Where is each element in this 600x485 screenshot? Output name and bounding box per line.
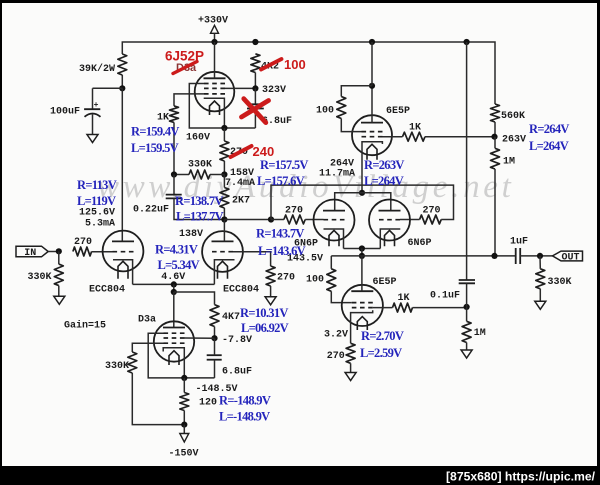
label ECC804 left bbox=[89, 284, 125, 295]
power -150V arrow bbox=[180, 425, 189, 442]
svg-text:330K: 330K bbox=[105, 361, 129, 372]
resistor 270 grounded grid bbox=[266, 266, 275, 286]
annotation R=264V bbox=[529, 122, 569, 136]
label 100 lower bbox=[306, 274, 324, 285]
resistor 240 cathode bbox=[220, 141, 229, 161]
svg-text:270: 270 bbox=[327, 351, 345, 362]
label 270 lower bbox=[327, 351, 345, 362]
wire 270 to grid bbox=[92, 251, 113, 253]
label 263V bbox=[502, 134, 526, 145]
junction bus/0.1uF line bbox=[464, 39, 470, 45]
svg-text:7.4mA: 7.4mA bbox=[225, 178, 255, 189]
label 264V bbox=[330, 158, 354, 169]
annotation R=263V bbox=[364, 158, 404, 172]
wire to 120 bbox=[183, 378, 185, 393]
label 125.6V bbox=[79, 207, 115, 218]
annotation L=157.6V bbox=[257, 174, 305, 188]
6J52P cathode bbox=[204, 98, 225, 128]
svg-text:L=2.59V: L=2.59V bbox=[360, 346, 402, 360]
deletion cross X (red) bbox=[242, 99, 269, 123]
resistor 270 lower cathode bbox=[346, 343, 355, 363]
junction IN node bbox=[56, 248, 62, 254]
resistor 39K/2W bbox=[118, 54, 127, 75]
junction bus/4K2 bbox=[252, 39, 258, 45]
label 1M lower bbox=[474, 328, 486, 339]
resistor 120 bbox=[180, 393, 189, 411]
label -7.8V bbox=[222, 335, 252, 346]
label 120 bbox=[199, 398, 217, 409]
svg-text:100: 100 bbox=[306, 274, 324, 285]
wire 270 to right grid bbox=[400, 219, 420, 221]
6E5P upper plate lead bbox=[371, 86, 373, 123]
svg-text:2K7: 2K7 bbox=[232, 196, 250, 207]
resistor 270 6N6P left grid bbox=[284, 215, 305, 224]
wire to 0.22uF bbox=[173, 175, 175, 195]
label 11.7mA bbox=[319, 168, 355, 179]
resistor 1K upper grid bbox=[403, 132, 426, 141]
ground under grounded grid 270 bbox=[265, 297, 276, 305]
resistor 2K7 bbox=[220, 188, 229, 209]
resistor 1M lower bbox=[462, 321, 471, 342]
wire cathode bus bbox=[133, 283, 215, 285]
svg-text:270: 270 bbox=[285, 205, 303, 216]
wire 1M ends bbox=[466, 307, 468, 350]
tube ECC804 left V1a bbox=[103, 231, 144, 279]
capacitor 6.8uF (deleted) bbox=[247, 88, 264, 128]
label 270 (right 6N6P grid) bbox=[423, 206, 441, 217]
wire to output line bbox=[361, 249, 363, 256]
label 6E5P upper bbox=[386, 106, 410, 117]
label 3.2V bbox=[324, 330, 348, 341]
ground under 1M lower bbox=[461, 350, 472, 358]
wire 1uF to OUT bbox=[520, 255, 552, 257]
svg-text:Gain=15: Gain=15 bbox=[64, 320, 106, 332]
label 323V bbox=[262, 85, 286, 96]
junction bus/+330V bbox=[211, 39, 217, 45]
wire B+ to ECC804 left plate bbox=[121, 88, 123, 241]
svg-text:323V: 323V bbox=[262, 85, 286, 96]
svg-text:R=10.31V: R=10.31V bbox=[240, 306, 288, 320]
svg-text:270: 270 bbox=[74, 237, 92, 248]
label 330K bbox=[188, 159, 212, 170]
label ECC804 right bbox=[223, 284, 259, 295]
svg-text:R=4.31V: R=4.31V bbox=[155, 243, 198, 257]
label 0.22uF bbox=[133, 204, 169, 215]
svg-text:L=157.6V: L=157.6V bbox=[257, 174, 305, 188]
svg-text:D3a: D3a bbox=[138, 315, 156, 326]
6E5P upper grid line to 1K bbox=[383, 136, 403, 138]
annotation R=138.7V bbox=[175, 194, 223, 208]
junction output/1M bbox=[491, 253, 497, 259]
label D3a struck out (red) bbox=[173, 62, 197, 75]
tube 6E5P upper V3 bbox=[352, 115, 392, 160]
annotation L=2.59V bbox=[360, 346, 402, 360]
svg-text:R=113V: R=113V bbox=[77, 178, 117, 192]
wire 240 to 330K junction bbox=[223, 161, 225, 175]
svg-text:R=263V: R=263V bbox=[364, 158, 404, 172]
label 1K lower bbox=[398, 293, 410, 304]
svg-text:138V: 138V bbox=[179, 229, 203, 240]
resistor 4K7 bbox=[210, 305, 219, 327]
svg-text:100: 100 bbox=[284, 57, 306, 72]
annotation L=-148.9V bbox=[219, 409, 270, 423]
label 1uF bbox=[510, 237, 528, 248]
svg-text:11.7mA: 11.7mA bbox=[319, 168, 355, 179]
svg-text:4K7: 4K7 bbox=[222, 312, 240, 323]
label -148.5V bbox=[196, 384, 238, 395]
junction 6E5P cathode node bbox=[359, 190, 365, 196]
wire box bottom to 240 resistor bbox=[224, 127, 255, 129]
tube 6J52P V2 bbox=[195, 72, 235, 115]
resistor 1K grid stopper bbox=[170, 106, 179, 123]
svg-text:OUT: OUT bbox=[562, 252, 580, 263]
svg-text:R=159.4V: R=159.4V bbox=[131, 125, 179, 139]
capacitor 0.22uF bbox=[166, 195, 182, 199]
junction 39K/100uF bbox=[119, 85, 125, 91]
svg-text:R=143.7V: R=143.7V bbox=[256, 226, 304, 240]
wire link down bbox=[173, 284, 175, 292]
label 1K bbox=[157, 113, 169, 124]
annotation R=157.5V bbox=[260, 158, 308, 172]
label 6E5P lower bbox=[373, 277, 397, 288]
label 560K bbox=[501, 111, 525, 122]
svg-text:4.6V: 4.6V bbox=[161, 272, 185, 283]
junction bus/6E5P plate bbox=[369, 39, 375, 45]
6J52P plate lead bbox=[214, 42, 216, 78]
svg-text:270: 270 bbox=[277, 272, 295, 283]
annotation R=143.7V bbox=[256, 226, 304, 240]
junction 330K left bbox=[171, 171, 177, 177]
junction tail node bbox=[171, 289, 177, 295]
label D3a bbox=[138, 315, 156, 326]
svg-text:www.diyAudioVillage.net: www.diyAudioVillage.net bbox=[97, 169, 515, 205]
wire bus to 6N6P left grid bbox=[271, 219, 324, 221]
resistor 330K sink grid bbox=[128, 352, 137, 373]
label 6.8uF lower bbox=[222, 367, 252, 378]
svg-text:160V: 160V bbox=[186, 133, 210, 144]
svg-text:1K: 1K bbox=[409, 123, 421, 134]
D3a cathode bbox=[163, 348, 184, 378]
resistor 330K input bbox=[54, 264, 63, 286]
wire cathode node down bbox=[223, 128, 225, 141]
power +330V arrow bbox=[211, 25, 219, 42]
resistor 4K2 screen bbox=[251, 54, 260, 73]
annotation L=5.34V bbox=[158, 258, 200, 272]
capacitor 100uF bbox=[84, 101, 100, 134]
svg-text:ECC804: ECC804 bbox=[89, 284, 125, 295]
wire 1K to 330K junction bbox=[173, 122, 175, 174]
junction OUT/330K bbox=[537, 253, 543, 259]
annotation R=159.4V bbox=[131, 125, 179, 139]
caption bar bbox=[0, 466, 600, 485]
6J52P g2 line bbox=[225, 87, 255, 89]
label 160V bbox=[186, 133, 210, 144]
wire B+ to 0.1uF (long) bbox=[466, 42, 468, 280]
junction output node bbox=[359, 253, 365, 259]
ground under output 330K bbox=[535, 301, 546, 309]
label 6.8uF (top) bbox=[262, 116, 292, 127]
label 6N6P right bbox=[408, 238, 432, 249]
junction cathode/bottom line bbox=[181, 375, 187, 381]
label -150V bbox=[169, 449, 199, 460]
svg-text:560K: 560K bbox=[501, 111, 525, 122]
svg-text:263V: 263V bbox=[502, 134, 526, 145]
tube 6N6P right V5 bbox=[369, 200, 410, 247]
label 7.4mA bbox=[225, 178, 255, 189]
label Gain=15 bbox=[64, 320, 106, 332]
wire 330K to -150 rail bbox=[132, 373, 184, 425]
annotation L=143.6V bbox=[258, 244, 306, 258]
capacitor 6.8uF lower bbox=[207, 338, 222, 378]
label 270 (left 6N6P grid) bbox=[285, 205, 303, 216]
label 138V bbox=[179, 229, 203, 240]
wire 1M down to output node bbox=[494, 137, 496, 256]
svg-text:+: + bbox=[94, 101, 99, 110]
capacitor 1uF bbox=[516, 248, 521, 264]
svg-text:+330V: +330V bbox=[198, 15, 228, 26]
junction 1M node bbox=[464, 304, 470, 310]
wire 138V bus to 270 bbox=[224, 219, 271, 221]
svg-text:0.1uF: 0.1uF bbox=[430, 291, 460, 302]
ground under 270 lower bbox=[345, 373, 356, 381]
6E5P lower grid line bbox=[373, 307, 393, 309]
label 330K output bbox=[548, 277, 572, 288]
svg-text:120: 120 bbox=[199, 398, 217, 409]
svg-text:L=143.6V: L=143.6V bbox=[258, 244, 306, 258]
svg-text:L=-148.9V: L=-148.9V bbox=[219, 409, 270, 423]
ground under 100uF bbox=[87, 135, 98, 143]
wire 270 to ground bbox=[350, 363, 352, 372]
svg-text:L=264V: L=264V bbox=[529, 139, 569, 153]
label 158V bbox=[230, 168, 254, 179]
label 270 struck out bbox=[230, 146, 252, 158]
svg-text:-7.8V: -7.8V bbox=[222, 335, 252, 346]
svg-text:6.8uF: 6.8uF bbox=[222, 367, 252, 378]
label 330K input bbox=[28, 272, 52, 283]
junction 263V node bbox=[491, 134, 497, 140]
annotation L=119V bbox=[77, 194, 116, 208]
wire 100 to lower g2 bbox=[331, 291, 352, 302]
label 1K upper bbox=[409, 123, 421, 134]
D3a g3 box bbox=[148, 333, 214, 378]
svg-text:R=264V: R=264V bbox=[529, 122, 569, 136]
wire cathode node to 6N6P plates bbox=[335, 193, 391, 211]
svg-text:[875x680] https://upic.me/: [875x680] https://upic.me/ bbox=[446, 470, 596, 484]
label 100 bbox=[316, 105, 334, 116]
label 270 grounded grid bbox=[277, 272, 295, 283]
junction -150V node bbox=[181, 422, 187, 428]
annotation L=137.7V bbox=[176, 210, 224, 224]
svg-text:IN: IN bbox=[24, 248, 36, 259]
junction 330K right bbox=[221, 171, 227, 177]
wire output line bbox=[331, 255, 515, 257]
svg-text:330K: 330K bbox=[548, 277, 572, 288]
svg-text:5.3mA: 5.3mA bbox=[85, 218, 115, 229]
wire IN to junction bbox=[48, 251, 59, 253]
annotation R=2.70V bbox=[361, 329, 404, 343]
power +330V label bbox=[198, 15, 228, 26]
label 2K7 bbox=[232, 196, 250, 207]
watermark www.diyAudioVillage.net bbox=[97, 169, 515, 205]
junction plate/100ohm bbox=[369, 83, 375, 89]
6N6P right cathode bbox=[380, 229, 400, 249]
wire 270gg to ground bbox=[270, 286, 272, 297]
wire 560K to 263V bbox=[494, 122, 496, 137]
wire 2K7 ends bbox=[223, 175, 225, 220]
resistor 330K output bbox=[536, 269, 545, 289]
annotation L=06.92V bbox=[241, 321, 289, 335]
svg-text:0.22uF: 0.22uF bbox=[133, 204, 169, 215]
svg-text:1K: 1K bbox=[157, 113, 169, 124]
svg-text:6E5P: 6E5P bbox=[386, 106, 410, 117]
svg-text:1M: 1M bbox=[474, 328, 486, 339]
svg-text:270: 270 bbox=[423, 206, 441, 217]
6E5P lower plate lead bbox=[361, 256, 363, 291]
junction cathodes bbox=[359, 245, 365, 251]
annotation R=-148.9V bbox=[219, 393, 271, 407]
label 143.5V bbox=[287, 254, 323, 265]
ECC804 left cathode bbox=[113, 260, 133, 285]
svg-text:L=264V: L=264V bbox=[364, 174, 404, 188]
svg-text:L=06.92V: L=06.92V bbox=[241, 321, 289, 335]
svg-text:R=157.5V: R=157.5V bbox=[260, 158, 308, 172]
wire 0.22uF to 138V bus bbox=[174, 198, 224, 219]
svg-text:1K: 1K bbox=[398, 293, 410, 304]
svg-text:330K: 330K bbox=[28, 272, 52, 283]
wire tail to D3a plate bbox=[173, 292, 175, 328]
annotation R=4.31V bbox=[155, 243, 198, 257]
annotation R=10.31V bbox=[240, 306, 288, 320]
ground under input 330K bbox=[54, 296, 65, 304]
svg-text:3.2V: 3.2V bbox=[324, 330, 348, 341]
6J52P g1 line bbox=[174, 94, 204, 106]
annotation L=264V bbox=[529, 139, 569, 153]
wire 4K7 to -7.8V node bbox=[214, 327, 216, 339]
svg-text:6E5P: 6E5P bbox=[373, 277, 397, 288]
label 1M upper bbox=[503, 157, 515, 168]
wire bus junction down bbox=[371, 42, 373, 86]
junction 138V bus/line up bbox=[268, 216, 274, 222]
junction 138V bus/2K7 bbox=[221, 216, 227, 222]
label 6N6P left bbox=[294, 239, 318, 250]
svg-text:-150V: -150V bbox=[169, 449, 199, 460]
label 100uF bbox=[50, 107, 80, 118]
D3a g2 line bbox=[185, 337, 215, 339]
junction cathode/box bbox=[221, 125, 227, 131]
6N6P left cathode bbox=[324, 229, 344, 249]
svg-text:R=138.7V: R=138.7V bbox=[175, 194, 223, 208]
label 100 (red) bbox=[284, 57, 306, 72]
tube 6N6P left V4 bbox=[314, 200, 355, 247]
junction 323V node bbox=[252, 85, 258, 91]
wire bootstrap line up/right/down bbox=[271, 185, 454, 219]
svg-text:330K: 330K bbox=[188, 159, 212, 170]
resistor 330K feedback bbox=[174, 170, 224, 179]
wire 100ohm to g2 bbox=[341, 119, 361, 132]
caption text bbox=[446, 470, 596, 484]
ECC804 right grid line bbox=[233, 252, 271, 266]
wire output to 100ohm bbox=[330, 256, 332, 269]
D3a g1 line bbox=[132, 343, 163, 352]
svg-text:L=5.34V: L=5.34V bbox=[158, 258, 200, 272]
label 0.1uF bbox=[430, 291, 460, 302]
resistor 560K bbox=[491, 104, 500, 122]
junction cathode bus bbox=[171, 281, 177, 287]
resistor 100 screen bbox=[337, 97, 346, 119]
wire cathode join bbox=[344, 248, 381, 250]
resistor 270 6N6P right grid bbox=[420, 215, 442, 224]
wire junction to 100uF bbox=[93, 88, 123, 109]
svg-text:L=119V: L=119V bbox=[77, 194, 116, 208]
annotation L=159.5V bbox=[131, 141, 179, 155]
junction -7.8V node bbox=[211, 335, 217, 341]
resistor 1K lower grid bbox=[393, 303, 413, 312]
capacitor 0.1uF bbox=[459, 280, 475, 307]
wire 100ohm top bbox=[341, 86, 372, 97]
ECC804 right cathode bbox=[214, 260, 234, 285]
wire tail to 4K7 bbox=[174, 292, 215, 305]
label 330K sink bbox=[105, 361, 129, 372]
label 270 input bbox=[74, 237, 92, 248]
svg-text:1M: 1M bbox=[503, 157, 515, 168]
6J52P g3 line to box bbox=[189, 84, 224, 129]
tube 6E5P lower V6 bbox=[342, 285, 383, 330]
annotation R=113V bbox=[77, 178, 117, 192]
svg-text:100: 100 bbox=[316, 105, 334, 116]
svg-text:L=137.7V: L=137.7V bbox=[176, 210, 224, 224]
label 4K7 bbox=[222, 312, 240, 323]
svg-text:125.6V: 125.6V bbox=[79, 207, 115, 218]
tube D3a V7 bbox=[154, 321, 194, 365]
wire 120 to -150V bbox=[183, 411, 185, 425]
6E5P lower cathode bbox=[351, 310, 373, 343]
wire 1K to 263V node bbox=[425, 136, 495, 138]
svg-text:ECC804: ECC804 bbox=[223, 284, 259, 295]
label 5.3mA bbox=[85, 218, 115, 229]
svg-text:R=2.70V: R=2.70V bbox=[361, 329, 404, 343]
ECC804 right plate lead bbox=[223, 220, 225, 242]
svg-text:R=-148.9V: R=-148.9V bbox=[219, 393, 271, 407]
connector IN tag bbox=[16, 246, 48, 259]
label 4K2 struck out bbox=[261, 59, 282, 72]
wire 4K2 to 323V node bbox=[254, 73, 256, 89]
label 39K/2W bbox=[79, 63, 115, 75]
wire 330K ends bbox=[58, 251, 60, 296]
tube ECC804 right V1b bbox=[202, 231, 243, 279]
svg-text:1uF: 1uF bbox=[510, 237, 528, 248]
6E5P upper cathode bbox=[362, 142, 382, 193]
wire 330K ends bbox=[539, 256, 541, 301]
svg-text:100uF: 100uF bbox=[50, 107, 80, 118]
svg-text:L=159.5V: L=159.5V bbox=[131, 141, 179, 155]
svg-text:240: 240 bbox=[253, 144, 275, 159]
svg-text:39K/2W: 39K/2W bbox=[79, 63, 115, 75]
wire 1K to 1M node bbox=[413, 307, 467, 309]
label 240 (red) bbox=[253, 144, 275, 159]
svg-text:6N6P: 6N6P bbox=[408, 238, 432, 249]
resistor 1M upper bbox=[491, 148, 500, 169]
label 4.6V bbox=[161, 272, 185, 283]
label 6J52P (red) bbox=[165, 49, 204, 64]
connector OUT tag bbox=[553, 251, 583, 263]
wire top B+ bus bbox=[122, 42, 495, 104]
resistor 270 input grid bbox=[73, 247, 92, 256]
resistor 100 lower screen bbox=[327, 269, 336, 292]
annotation L=264V (2) bbox=[364, 174, 404, 188]
